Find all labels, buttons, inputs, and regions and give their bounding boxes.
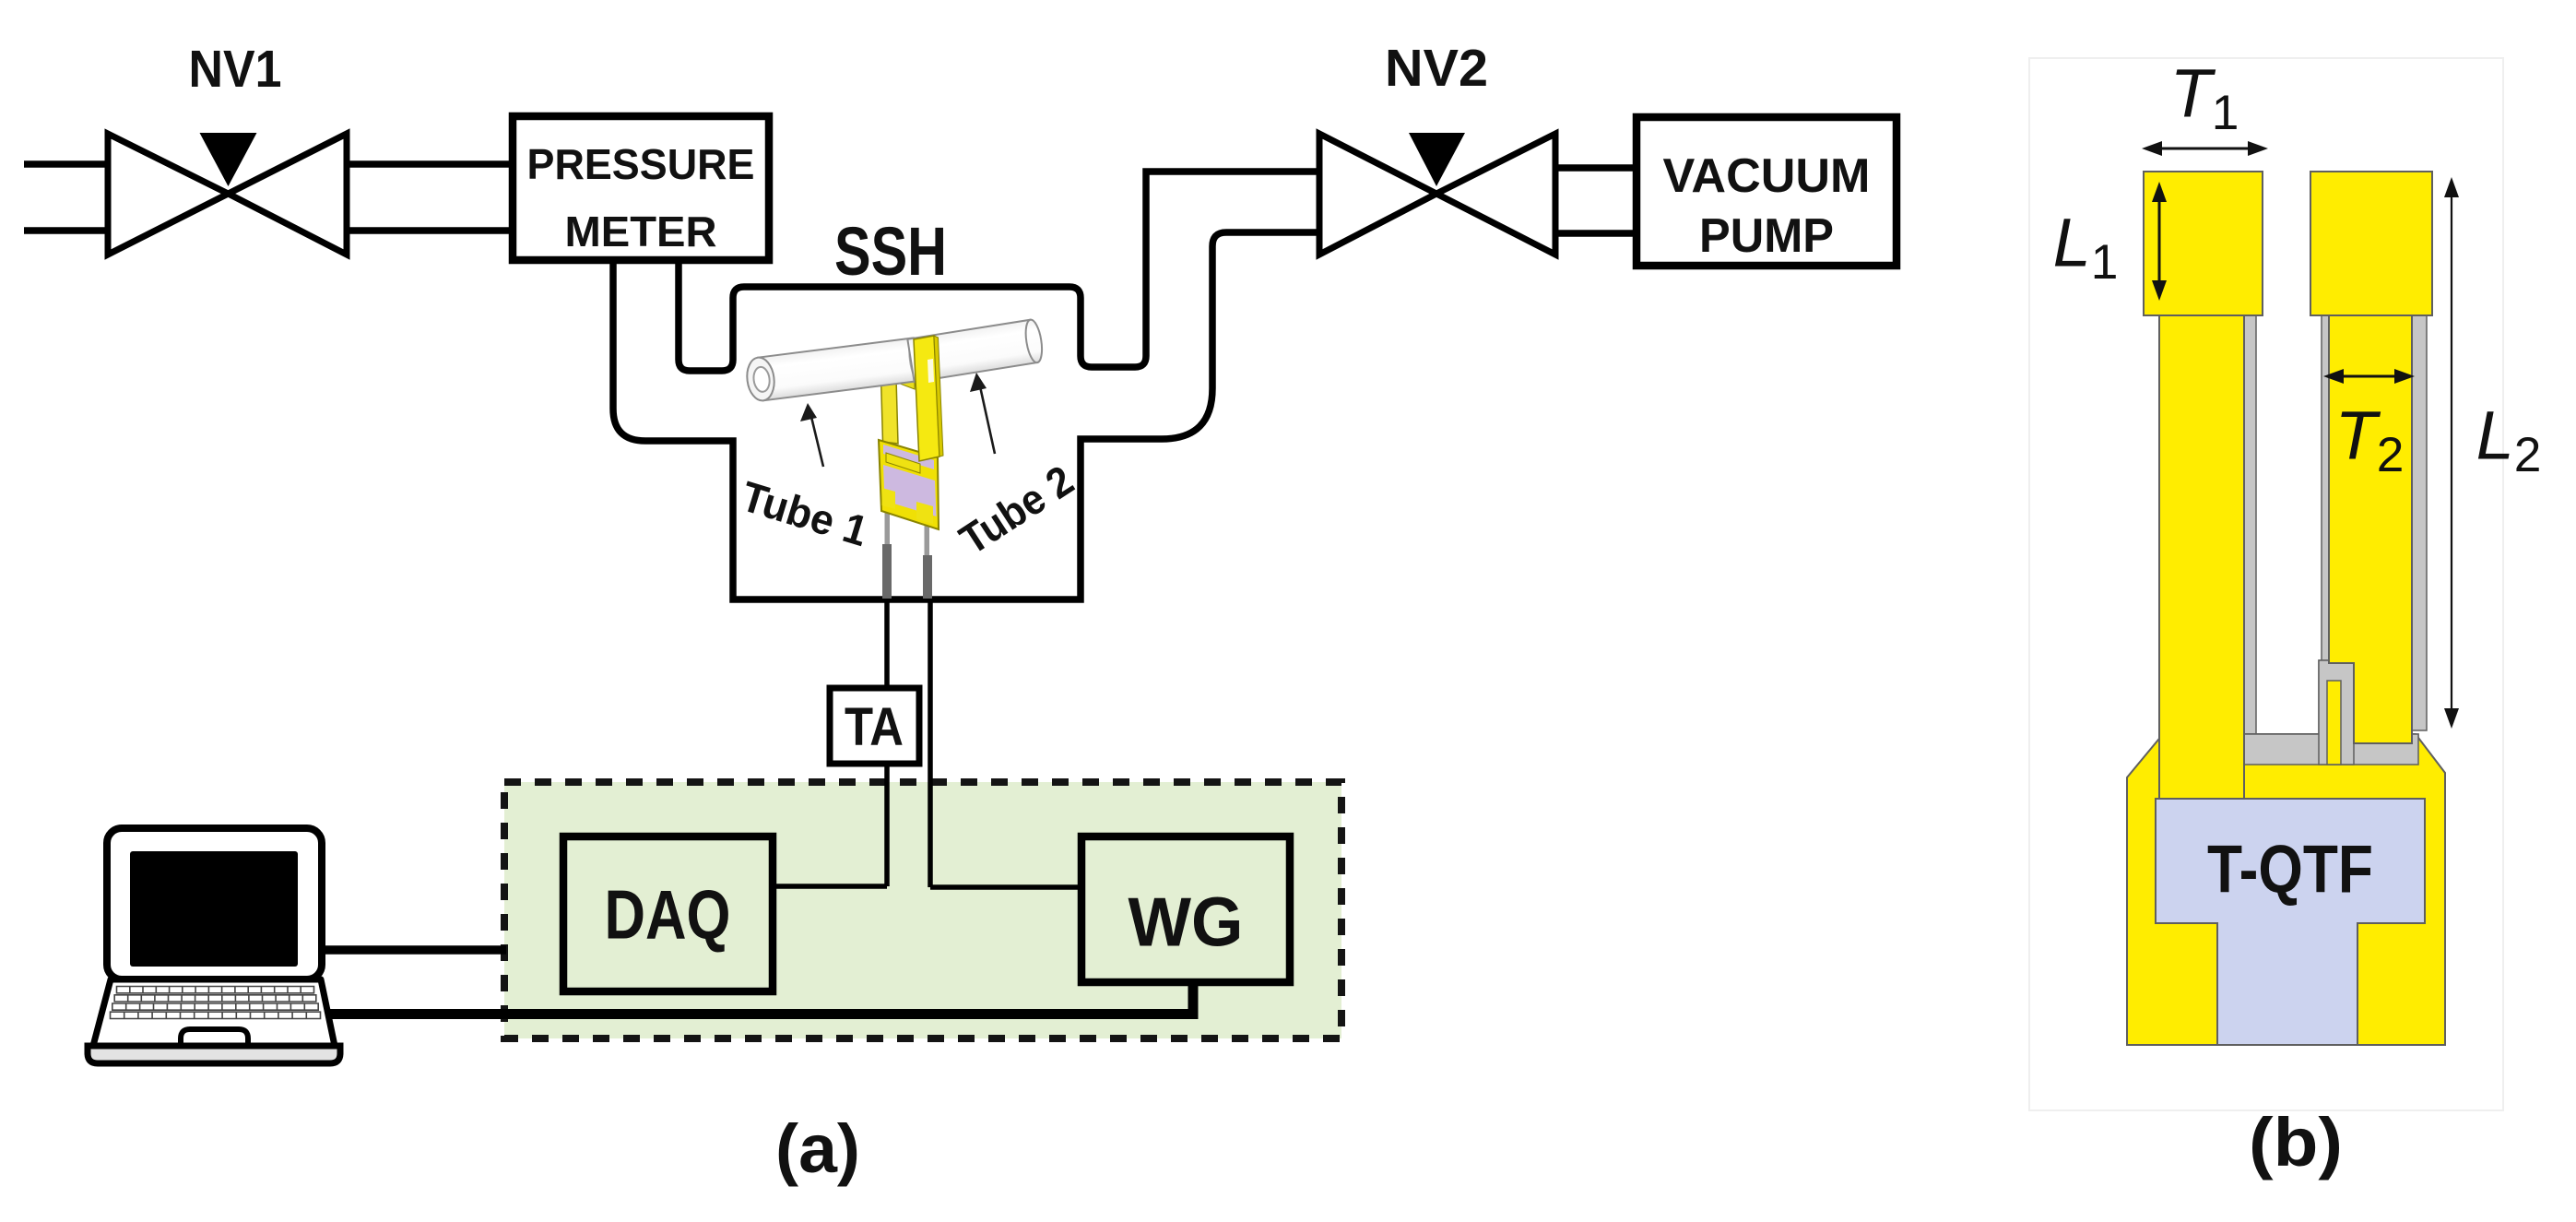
box WG <box>1081 836 1290 982</box>
T-QTF 3D: bottom tab left <box>882 488 896 509</box>
wire: left fork lead down to DAQ connection <box>884 598 890 886</box>
dimension arrow L2 <box>2451 183 2452 723</box>
svg-text:SSH: SSH <box>834 213 947 290</box>
T-QTF substrate bottom band <box>2244 734 2418 765</box>
SSH interior: gray lead wires <box>885 503 891 549</box>
T-QTF left prong <box>2159 315 2244 801</box>
svg-text:NV1: NV1 <box>189 40 282 99</box>
T-QTF 3D: main lavender face <box>883 465 937 516</box>
box PRESSURE METER <box>513 116 769 260</box>
arrow to tube 1 <box>811 417 823 467</box>
T-QTF 3D: base support plate <box>879 440 939 529</box>
T-QTF 3D: back prong <box>881 376 899 444</box>
laptop base bar <box>88 1046 340 1063</box>
T-QTF base support (yellow) <box>2127 734 2445 1045</box>
wire: inlet line upper left <box>24 160 108 168</box>
svg-text:METER: METER <box>565 208 717 255</box>
T-QTF substrate step cut <box>2319 660 2354 765</box>
wire: NV2 to vacuum pump lower <box>1555 230 1637 237</box>
T-QTF left prong head <box>2144 172 2263 315</box>
T-QTF right prong with step <box>2329 315 2412 743</box>
T-QTF mounting (lavender T) <box>2156 799 2425 1045</box>
box DAQ <box>563 836 773 991</box>
wire: laptop to control box upper cable <box>322 945 506 955</box>
svg-text:(b): (b) <box>2249 1104 2343 1180</box>
svg-text:WG: WG <box>1128 883 1244 960</box>
valve NV1 <box>108 133 347 255</box>
tube 2 (white cylinder) <box>907 318 1045 382</box>
T-QTF 3D: front prong <box>914 336 939 461</box>
dimension arrow T1 <box>2147 148 2263 150</box>
T-QTF 3D: lavender band <box>883 445 934 469</box>
T-QTF 3D: crossbar <box>895 374 915 389</box>
svg-text:DAQ: DAQ <box>605 875 731 953</box>
T-QTF center electrode tab <box>2327 681 2341 765</box>
wire: inlet line lower left <box>24 227 108 234</box>
dimension arrow T2 <box>2329 375 2409 378</box>
T-QTF quartz substrate strips <box>2244 315 2256 738</box>
arrow to tube 2 <box>980 386 995 454</box>
wire: NV2 to vacuum pump upper <box>1555 164 1637 172</box>
svg-text:NV2: NV2 <box>1385 39 1488 98</box>
wire: NV1 to pressure meter upper <box>347 160 513 168</box>
faint border of panel b <box>2029 58 2503 1110</box>
T-QTF right prong head <box>2310 172 2432 315</box>
wire: pipe inner wall PM to SSH + SSH top edge + pipe to NV2 top <box>679 172 1319 371</box>
svg-text:VACUUM: VACUUM <box>1663 149 1871 203</box>
tube 1 (white cylinder) <box>745 338 926 403</box>
svg-text:PUMP: PUMP <box>1699 209 1834 263</box>
label Tube 1 <box>736 471 873 555</box>
svg-text:T-QTF: T-QTF <box>2207 833 2373 908</box>
svg-text:(a): (a) <box>775 1110 860 1187</box>
svg-text:PRESSURE: PRESSURE <box>527 140 755 188</box>
wire: pipe outer wall PM to SSH + SSH chamber bottom/right + pipe to NV2 bottom <box>613 232 1319 599</box>
laptop computer <box>88 828 340 1063</box>
laptop keyboard <box>111 987 321 1019</box>
dimension arrow L1 <box>2158 187 2161 295</box>
wire: laptop to WG lower cable <box>328 983 1193 1014</box>
box VACUUM PUMP <box>1637 117 1897 266</box>
label Tube 2 <box>951 456 1082 564</box>
wire: DAQ to left lead horizontal <box>773 884 887 889</box>
T-QTF 3D: yellow bar <box>886 453 920 473</box>
svg-text:TA: TA <box>845 697 904 757</box>
wire: right lead to WG horizontal <box>930 884 1081 890</box>
dashed control unit box (green) <box>504 782 1341 1038</box>
wire: right fork lead down to WG connection <box>928 598 933 887</box>
laptop touchpad tab <box>181 1029 248 1046</box>
T-QTF 3D: bottom tab right <box>916 502 933 524</box>
wire: NV1 to pressure meter lower <box>347 227 513 234</box>
valve NV2 <box>1319 133 1555 255</box>
box TA <box>830 688 919 764</box>
